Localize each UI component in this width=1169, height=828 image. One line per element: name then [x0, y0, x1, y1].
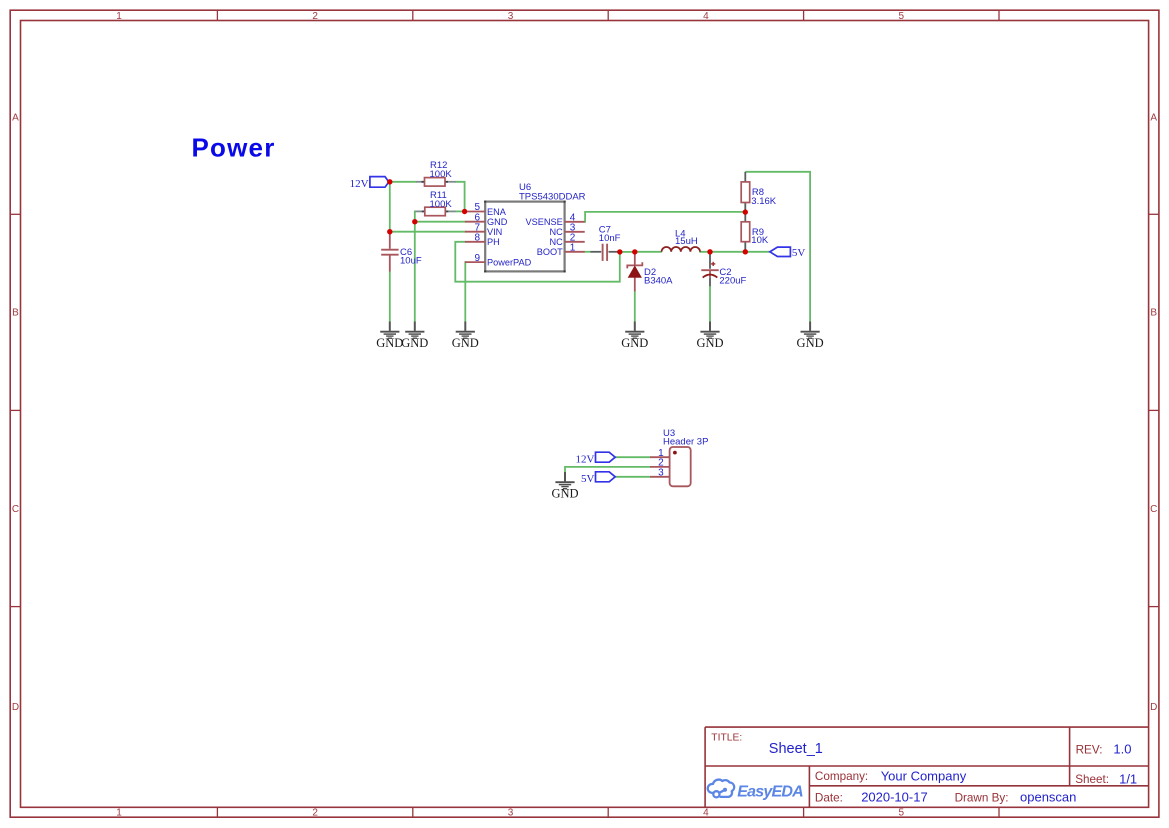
pin 7 VIN [465, 222, 502, 237]
node 5V output junction [743, 249, 748, 254]
resistor R9 [741, 212, 769, 252]
svg-text:8: 8 [475, 233, 481, 244]
svg-text:100K: 100K [430, 169, 453, 180]
pin 5 ENA [465, 202, 507, 217]
pin 8 PH [465, 233, 500, 248]
ground GND (R8 rail) [797, 322, 824, 351]
svg-text:REV:: REV: [1076, 743, 1103, 756]
svg-text:2: 2 [312, 808, 318, 819]
wire GND pin row [415, 221, 466, 223]
svg-text:TITLE:: TITLE: [711, 732, 742, 743]
wire D2 node to L4 [635, 251, 662, 253]
svg-text:Sheet:: Sheet: [1075, 773, 1109, 786]
pin 3 [650, 468, 670, 479]
diode D2 B340A [627, 252, 673, 292]
wire PH to catch node [455, 242, 620, 282]
inductor L4 [662, 229, 700, 252]
svg-text:C: C [1150, 504, 1157, 515]
svg-text:9: 9 [475, 253, 481, 264]
svg-text:3: 3 [508, 11, 514, 22]
wire C6 bottom to ground [389, 271, 391, 322]
svg-text:VSENSE: VSENSE [526, 217, 563, 227]
svg-text:220uF: 220uF [719, 275, 746, 286]
capacitor C6 [381, 234, 422, 272]
svg-text:10nF: 10nF [599, 233, 621, 244]
node ENA junction [462, 209, 467, 214]
svg-text:A: A [1150, 113, 1157, 124]
svg-text:5: 5 [899, 808, 905, 819]
svg-text:1: 1 [570, 243, 576, 254]
svg-text:5V: 5V [792, 247, 806, 259]
svg-text:Drawn By:: Drawn By: [955, 792, 1009, 805]
ground GND (D2 anode) [621, 322, 648, 351]
svg-text:12V: 12V [575, 453, 594, 465]
svg-text:1: 1 [116, 11, 122, 22]
IC U6 TPS5430DDAR [465, 182, 586, 272]
wire R11 right lead to ENA junction [456, 210, 466, 212]
svg-text:5V: 5V [581, 473, 595, 485]
node VIN junction [387, 229, 392, 234]
svg-text:100K: 100K [430, 199, 453, 210]
svg-text:GND: GND [452, 336, 479, 350]
resistor R11 [416, 190, 456, 216]
svg-text:Date:: Date: [815, 792, 843, 805]
ground GND (PowerPAD) [452, 322, 479, 351]
wire VIN row [390, 231, 466, 233]
pin 1 [650, 448, 670, 459]
svg-text:PH: PH [487, 237, 500, 247]
svg-text:Header 3P: Header 3P [663, 436, 708, 447]
svg-text:3.16K: 3.16K [751, 196, 776, 207]
svg-text:2020-10-17: 2020-10-17 [861, 790, 928, 805]
wire C7 to D2 node [620, 251, 635, 253]
svg-text:B: B [12, 308, 19, 319]
wire header pin2 to ground [565, 467, 650, 472]
svg-text:C: C [12, 504, 19, 515]
svg-text:GND: GND [621, 336, 648, 350]
ground GND (header pin2) [551, 472, 578, 501]
wire VSENSE to divider junction [584, 212, 745, 222]
ground GND (C6 net) [376, 322, 403, 351]
svg-text:GND: GND [551, 487, 578, 501]
pin 4 VSENSE [526, 213, 585, 228]
capacitor C7 [591, 225, 621, 261]
svg-text:GND: GND [376, 336, 403, 350]
node C2 junction [707, 249, 712, 254]
net port 5V (right) [770, 247, 806, 259]
svg-text:10uF: 10uF [400, 255, 422, 266]
svg-text:1/1: 1/1 [1119, 771, 1137, 786]
wire 12V rail down to VIN row and C6 [389, 182, 391, 235]
wire BOOT to C7 [584, 251, 591, 253]
svg-text:D: D [12, 702, 19, 713]
svg-text:GND: GND [797, 336, 824, 350]
svg-text:10K: 10K [751, 235, 769, 246]
svg-text:ENA: ENA [487, 207, 507, 217]
svg-text:3: 3 [658, 468, 664, 479]
svg-text:NC: NC [550, 237, 564, 247]
resistor R8 [741, 172, 777, 212]
wire R11 left rail down to ground [415, 211, 416, 321]
title block [705, 727, 1149, 807]
connector U3 Header 3P [650, 428, 708, 486]
svg-text:4: 4 [703, 808, 709, 819]
node VSENSE divider junction [743, 209, 748, 214]
svg-text:GND: GND [487, 217, 508, 227]
svg-text:B340A: B340A [644, 276, 673, 287]
svg-text:1: 1 [116, 808, 122, 819]
node 12V junction [387, 179, 392, 184]
wire R8 top to right rail [745, 172, 810, 322]
wire D2 anode to ground [634, 291, 636, 322]
svg-text:BOOT: BOOT [537, 247, 563, 257]
junction dots [387, 179, 748, 254]
wire C2 bottom to ground [709, 286, 711, 322]
wire PowerPAD down to ground [464, 262, 467, 322]
pin 2 [650, 458, 670, 469]
svg-text:PowerPAD: PowerPAD [487, 257, 532, 267]
svg-text:B: B [1150, 308, 1157, 319]
svg-text:4: 4 [703, 11, 709, 22]
svg-text:A: A [12, 113, 19, 124]
pin 1 BOOT [537, 243, 585, 258]
resistor R12 [416, 160, 456, 186]
svg-text:5: 5 [899, 11, 905, 22]
pin 2 NC [550, 233, 585, 248]
wire 12V port to R12 [388, 181, 417, 183]
pin 6 GND [465, 212, 508, 227]
node BOOT-PH junction [617, 249, 622, 254]
svg-text:Your Company: Your Company [881, 768, 967, 783]
svg-text:VIN: VIN [487, 227, 502, 237]
svg-text:1.0: 1.0 [1113, 742, 1131, 757]
EasyEDA logo [708, 780, 803, 801]
node GND pin junction [412, 219, 417, 224]
capacitor C2 220uF polarized [701, 252, 746, 286]
svg-text:12V: 12V [350, 178, 369, 190]
svg-text:Power: Power [192, 133, 276, 163]
svg-text:15uH: 15uH [675, 236, 698, 247]
net port 12V (top) [350, 177, 389, 190]
pin 9 PowerPAD [465, 253, 532, 268]
svg-text:EasyEDA: EasyEDA [737, 783, 803, 800]
wire header pin1 to 12V port [616, 456, 651, 458]
node D2 cathode junction [632, 249, 637, 254]
pin 3 NC [550, 223, 585, 238]
wire L4 to C2 to R9 to 5V port [699, 251, 770, 253]
svg-text:openscan: openscan [1020, 790, 1076, 805]
svg-text:NC: NC [550, 227, 564, 237]
svg-text:TPS5430DDAR: TPS5430DDAR [519, 191, 586, 202]
ground GND (R11 net) [401, 322, 428, 351]
net port 12V (header) [575, 452, 615, 465]
ground GND (C2) [696, 322, 723, 351]
svg-text:3: 3 [508, 808, 514, 819]
net port 5V (header) [581, 472, 615, 485]
svg-text:D: D [1150, 702, 1157, 713]
svg-text:Company:: Company: [815, 770, 868, 783]
svg-text:GND: GND [401, 336, 428, 350]
svg-text:Sheet_1: Sheet_1 [769, 741, 823, 757]
svg-text:GND: GND [696, 336, 723, 350]
wire R12 right lead down to ENA junction [456, 182, 465, 212]
wire header pin3 to 5V port [616, 476, 651, 478]
svg-text:2: 2 [312, 11, 318, 22]
